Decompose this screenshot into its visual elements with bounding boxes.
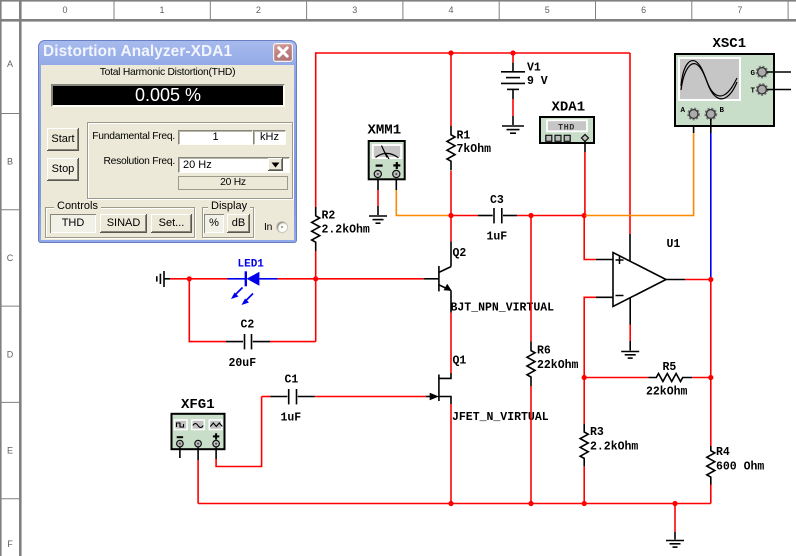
wire LED row right to Q2 base <box>278 278 424 280</box>
transistor Q1 <box>426 355 549 425</box>
distortion analyzer instrument XDA1 <box>540 100 594 144</box>
svg-text:B: B <box>720 107 725 115</box>
wire C2 right lead <box>270 341 316 343</box>
wire rail to op-amp V+ <box>629 53 631 262</box>
ground (below XMM1) <box>369 216 387 223</box>
svg-text:C3: C3 <box>490 194 504 207</box>
svg-text:XSC1: XSC1 <box>713 36 747 52</box>
svg-text:XMM1: XMM1 <box>368 123 402 139</box>
resistor R5 <box>646 361 692 399</box>
svg-text:XFG1: XFG1 <box>181 397 215 413</box>
wire V1 to ground <box>512 99 514 125</box>
capacitor C2 <box>226 319 270 371</box>
resistor R3 <box>580 424 638 466</box>
multimeter XMM1 <box>368 123 405 180</box>
wire R6 column upper <box>530 216 532 342</box>
battery V1 <box>501 53 548 99</box>
op-amp U1 <box>613 238 680 307</box>
wire op-amp V- to ground <box>629 298 631 351</box>
svg-text:THD: THD <box>558 122 575 132</box>
node plus-input junction <box>582 213 587 218</box>
svg-text:A: A <box>681 107 686 115</box>
svg-text:1uF: 1uF <box>487 231 508 244</box>
ground (below op-amp) <box>621 352 639 359</box>
svg-text:R3: R3 <box>590 426 604 439</box>
wire C3 right to op-amp plus node <box>517 215 584 217</box>
ground (bottom rail) <box>666 541 684 548</box>
wire rail to R1 <box>450 53 452 126</box>
wire XMM1 minus to ground <box>377 179 379 216</box>
wire R6 column lower <box>530 386 532 504</box>
svg-text:R5: R5 <box>663 361 677 374</box>
wire R3 top lead <box>583 378 585 425</box>
wire top V+ rail <box>316 52 630 54</box>
svg-text:22kOhm: 22kOhm <box>537 359 579 372</box>
node rail R3 junction <box>582 501 587 506</box>
oscilloscope XSC1 <box>675 36 774 126</box>
resistor R4 <box>707 446 765 485</box>
wire op-amp minus input <box>584 297 613 377</box>
capacitor C1 <box>262 374 315 425</box>
svg-text:R4: R4 <box>716 446 730 459</box>
svg-text:C2: C2 <box>241 319 255 332</box>
transistor Q2 <box>424 247 554 315</box>
svg-text:T: T <box>751 88 756 96</box>
wire XDA1 output down <box>584 142 586 216</box>
svg-text:5: 5 <box>545 5 550 15</box>
svg-text:2.2kOhm: 2.2kOhm <box>322 224 370 237</box>
svg-text:B: B <box>7 157 13 167</box>
wire XFG1 plus to C1 <box>216 397 262 467</box>
wire XFG1 minus stub <box>179 448 181 459</box>
svg-text:Q1: Q1 <box>453 355 467 368</box>
svg-text:R6: R6 <box>537 345 551 358</box>
svg-text:6: 6 <box>641 5 646 15</box>
node feedback right junction <box>708 375 713 380</box>
svg-text:R2: R2 <box>322 210 336 223</box>
svg-text:1uF: 1uF <box>281 412 302 425</box>
svg-text:G: G <box>751 70 756 78</box>
capacitor C3 <box>478 194 517 244</box>
ground (below V1) <box>502 126 524 133</box>
svg-text:2: 2 <box>256 5 261 15</box>
svg-text:U1: U1 <box>667 238 681 251</box>
svg-text:7: 7 <box>737 5 742 15</box>
wire R2 to LED node and C2 corner <box>315 251 317 342</box>
svg-text:A: A <box>7 59 13 69</box>
wire output node down <box>710 280 712 378</box>
svg-text:2.2kOhm: 2.2kOhm <box>590 441 638 454</box>
wire rail to R2 <box>315 52 317 207</box>
svg-text:22kOhm: 22kOhm <box>646 386 688 399</box>
node rail Q1 junction <box>448 501 453 506</box>
wire Q2 emitter to Q1 drain <box>439 290 451 378</box>
node rail ground junction <box>672 501 677 506</box>
node LED left junction <box>187 276 192 281</box>
node top rail V1 junction <box>510 50 515 55</box>
wire R5 right lead <box>692 377 711 379</box>
svg-text:JFET_N_VIRTUAL: JFET_N_VIRTUAL <box>452 411 549 424</box>
svg-text:E: E <box>7 446 13 456</box>
wire orange scope A channel <box>584 119 693 216</box>
wire rail to bottom ground <box>674 504 676 540</box>
svg-text:4: 4 <box>448 5 453 15</box>
function generator XFG1 <box>172 397 225 449</box>
svg-text:XDA1: XDA1 <box>552 100 586 116</box>
node R6 top junction <box>528 213 533 218</box>
wire scope T stub <box>767 89 791 91</box>
wire R4 top lead <box>710 378 712 447</box>
resistor R2 <box>312 207 370 251</box>
wire R1 to C3 node <box>450 171 452 216</box>
node output junction <box>708 277 713 282</box>
wire bottom ground rail <box>198 503 711 505</box>
svg-text:9 V: 9 V <box>527 75 548 88</box>
wire scope G stub <box>767 71 791 73</box>
node top rail R1 junction <box>448 50 453 55</box>
wire C2 left branch <box>189 279 226 342</box>
svg-text:Q2: Q2 <box>453 247 467 260</box>
wire R4 bottom lead <box>710 485 712 504</box>
wire op-amp plus input <box>584 216 613 260</box>
svg-text:R1: R1 <box>457 130 471 143</box>
node C3 left junction <box>448 213 453 218</box>
resistor R1 <box>447 126 491 170</box>
node LED right junction <box>313 276 318 281</box>
svg-text:600 Ohm: 600 Ohm <box>716 461 764 474</box>
wire scope B blue channel <box>710 119 712 280</box>
wire R3 bottom lead <box>583 467 585 504</box>
node feedback left junction <box>582 375 587 380</box>
svg-text:D: D <box>7 349 14 359</box>
wire C1 row to Q1 gate <box>315 396 426 398</box>
wire Q2 collector <box>450 216 452 267</box>
ground (LED row, rotated) <box>157 271 170 287</box>
wire LED row left <box>170 278 228 280</box>
svg-text:C: C <box>7 253 14 263</box>
svg-text:C1: C1 <box>285 374 299 387</box>
LED LED1 <box>228 259 278 306</box>
svg-text:BJT_NPN_VIRTUAL: BJT_NPN_VIRTUAL <box>451 302 555 315</box>
wire XFG1 common to bottom rail <box>197 448 199 504</box>
svg-text:1: 1 <box>159 5 164 15</box>
svg-text:V1: V1 <box>527 62 541 75</box>
wire XMM1 plus orange to C3 node <box>396 179 451 216</box>
svg-text:0: 0 <box>62 5 67 15</box>
svg-text:LED1: LED1 <box>238 259 265 271</box>
node rail R6 junction <box>528 501 533 506</box>
resistor R6 <box>527 342 579 387</box>
svg-text:3: 3 <box>352 5 357 15</box>
wire Q1 source down <box>450 404 452 504</box>
svg-text:F: F <box>7 539 13 549</box>
wire R5 left lead <box>584 377 648 379</box>
svg-text:7kOhm: 7kOhm <box>457 143 492 156</box>
wire op-amp output <box>666 279 711 281</box>
svg-text:20uF: 20uF <box>229 357 257 370</box>
wire C3 left lead <box>451 215 478 217</box>
